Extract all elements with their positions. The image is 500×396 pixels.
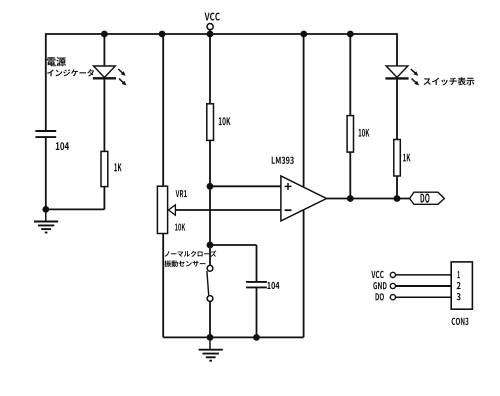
pin number 3 (CON3) <box>457 293 461 300</box>
label VCC (top) <box>205 13 220 21</box>
pin number 1 (CON3) <box>457 271 460 278</box>
label DO (net tag) <box>421 194 430 203</box>
wire: node A down to sensor node <box>209 186 211 245</box>
junction: top rail dot (R2/VCC) <box>207 31 214 38</box>
wire: node to ground <box>45 209 47 221</box>
resistor R1 1K <box>101 151 108 186</box>
label 10K (R3 value) <box>359 129 370 137</box>
junction: top rail dot (LED1) <box>101 31 108 38</box>
wire: R4 bottom to output <box>396 176 398 199</box>
op-amp U1 LM393 <box>281 176 327 221</box>
junction: sensor node <box>207 242 214 249</box>
wire: DO to CON3 pin 3 <box>396 296 452 298</box>
wire: LED1 anode from rail <box>103 34 105 66</box>
junction: output at R3 <box>347 195 354 202</box>
wire: node A to + input <box>210 185 281 187</box>
wire: op-amp column (rail to ground rail) <box>303 34 305 337</box>
op-amp + input mark <box>285 185 292 187</box>
potentiometer VR1 wiper arrow <box>169 205 176 215</box>
capacitor C1 104 <box>35 130 56 132</box>
label LM393 (U1) <box>272 157 294 164</box>
label DO (CON3 pin 3 net) <box>376 293 384 300</box>
wire: switch to ground rail <box>209 301 211 337</box>
wire: ground rail bottom <box>163 336 303 338</box>
label 10K (R2 value) <box>219 117 231 125</box>
label GND (CON3 pin 2 net) <box>373 282 386 289</box>
wire: node to R1 bottom <box>46 208 105 210</box>
ground (bottom) <box>199 349 223 351</box>
switch S1 lever <box>207 271 209 295</box>
junction: node A (non-inv input) <box>207 183 214 190</box>
label 振動センサー (vibration sensor) <box>164 260 205 267</box>
connector CON3 pin circle DO <box>390 295 395 300</box>
wire: VR1 bottom to ground rail <box>162 234 164 338</box>
wire: rail corner to LED2 <box>396 33 398 66</box>
resistor R3 10K (pull-up) <box>347 116 353 153</box>
junction: left ground node <box>42 206 49 213</box>
label VR1 (ref designator) <box>176 190 187 197</box>
wire: C2 top lead <box>256 245 258 282</box>
wire: left branch down to C1 <box>45 33 47 131</box>
connector CON3 pin circle VCC <box>390 272 395 277</box>
wire: rail to R3 top <box>349 34 351 116</box>
wire: VCC top rail <box>46 33 397 35</box>
connector CON3 body <box>451 262 472 309</box>
label 10K (VR1 value) <box>175 224 185 231</box>
junction: top rail at R3 <box>347 31 354 38</box>
label CON3 (ref designator) <box>452 318 469 325</box>
junction: sensor column to ground rail <box>207 334 214 341</box>
wire: C1 to ground node <box>45 137 47 209</box>
switch S1 contact top <box>207 265 213 271</box>
label 104 (C2 value) <box>267 282 279 289</box>
label スイッチ表示 (switch indicator) <box>424 77 475 85</box>
label 1K (R1 value) <box>114 163 121 171</box>
connector CON3 pin circle GND <box>390 283 395 288</box>
wire: LED2 cathode to R4 <box>396 78 398 139</box>
wire: C2 bottom lead <box>256 287 258 337</box>
potentiometer VR1 body <box>157 186 167 233</box>
label インジケータ (indicator) <box>47 69 94 76</box>
ground (left) <box>34 221 58 223</box>
label 104 (C1 value) <box>56 142 69 150</box>
LED D2 switch indicator <box>386 66 408 78</box>
LED D1 power indicator <box>94 66 116 78</box>
wire: VR1 wiper to inverting input <box>175 209 281 211</box>
junction: op-amp column at rail <box>300 31 307 38</box>
junction: output at R4 <box>394 195 401 202</box>
junction: top rail dot (VR1) <box>159 31 166 38</box>
wire: VCC to CON3 pin 1 <box>396 274 452 276</box>
pin number 2 (CON3) <box>457 282 461 289</box>
wire: LED1 cathode to R1 <box>103 78 105 151</box>
label VCC (CON3 pin 1 net) <box>371 271 383 278</box>
switch S1 contact bottom <box>207 296 213 302</box>
op-amp - input mark <box>285 209 292 211</box>
wire: rail to VR1 top <box>162 34 164 186</box>
net tag DO <box>410 192 445 204</box>
junction: C2 to ground rail <box>253 334 260 341</box>
wire: sensor node to C2 <box>210 244 257 246</box>
wire: ground stub <box>209 337 211 349</box>
capacitor C2 104 <box>246 281 267 283</box>
resistor R4 1K <box>394 140 401 177</box>
wire: sensor node to switch <box>209 245 211 266</box>
label ノーマルクローズ (normally closed) <box>165 250 217 257</box>
wire: rail to R2 top <box>209 34 211 104</box>
power VCC symbol <box>207 24 213 30</box>
label 1K (R4 value) <box>403 154 410 162</box>
wire: output to DO tag <box>327 198 410 200</box>
label 電源 (power) <box>47 57 66 66</box>
wire: GND to CON3 pin 2 <box>396 285 452 287</box>
resistor R2 10K <box>207 104 214 141</box>
wire: R3 bottom to output <box>349 152 351 198</box>
wire: R2 bottom to node A <box>209 140 211 186</box>
